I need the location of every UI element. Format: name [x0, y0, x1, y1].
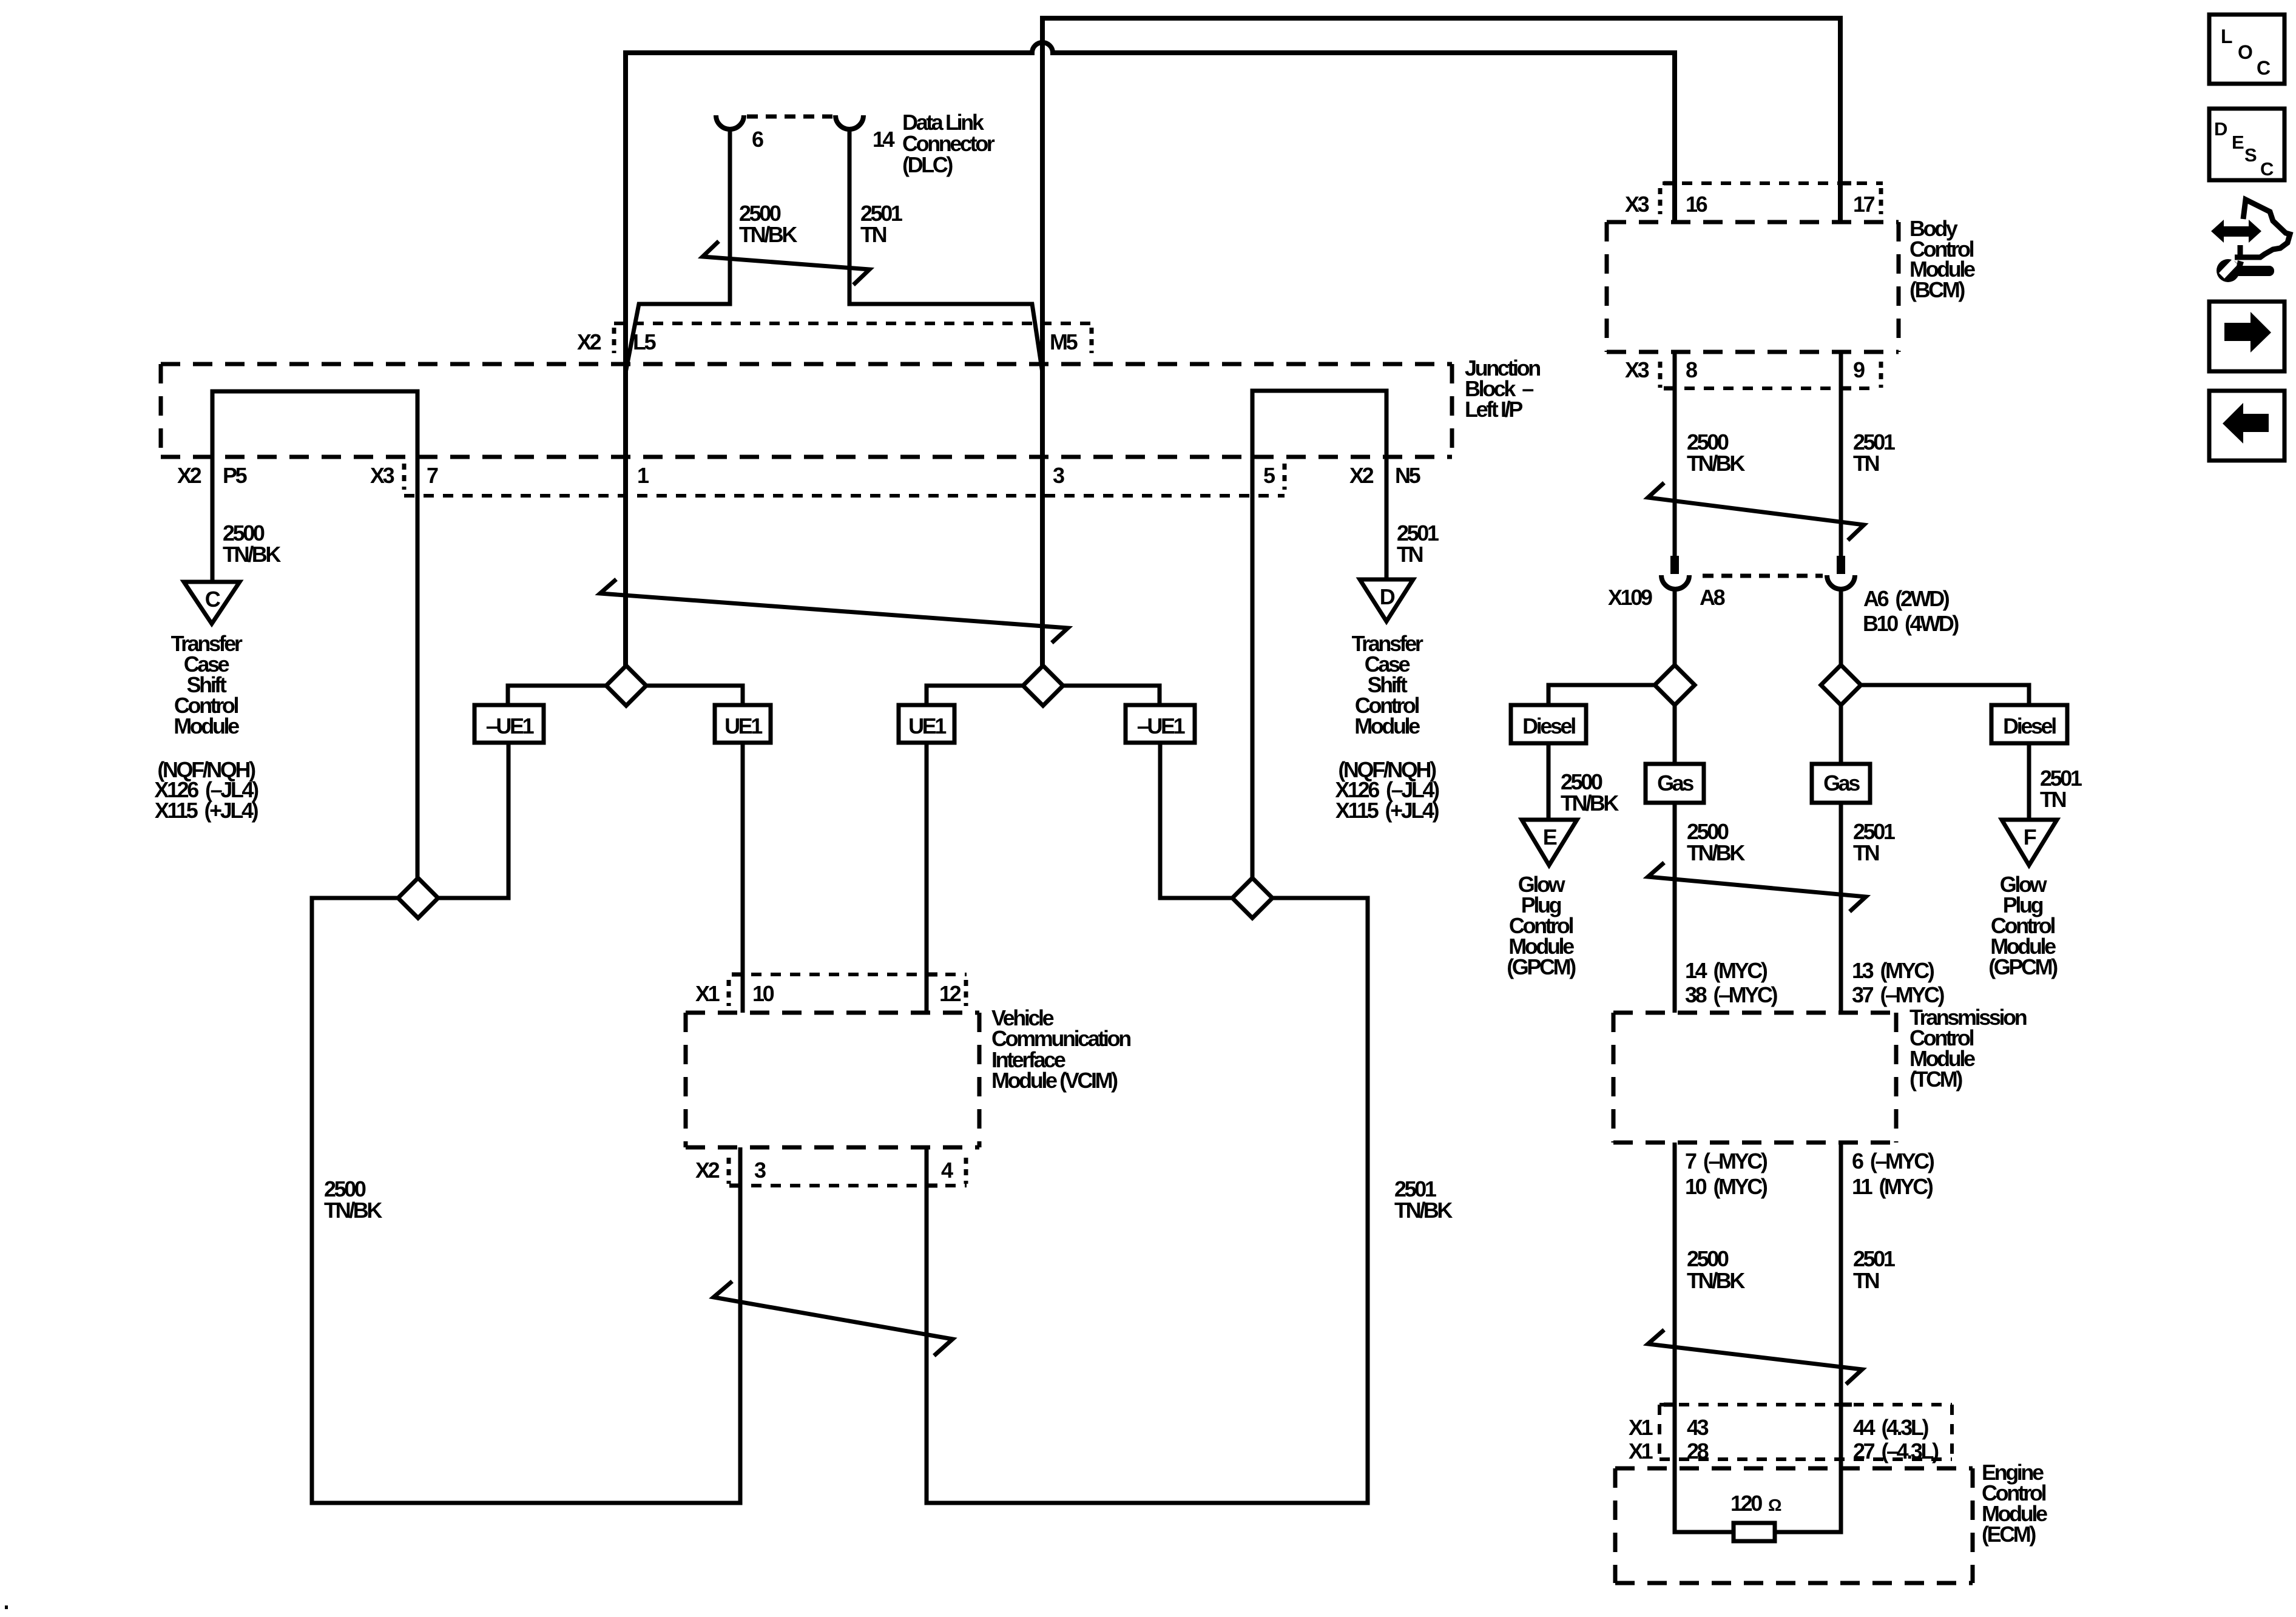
option box Gas (left): [1646, 764, 1704, 803]
svg-text:UE1: UE1: [908, 714, 947, 738]
svg-text:TN: TN: [1853, 840, 1879, 865]
tick X1 row left: [727, 980, 731, 1006]
junction block bottom pin row dotted: [404, 494, 1285, 498]
svg-text:(GPCM): (GPCM): [1507, 954, 1576, 979]
tick 5: [1283, 464, 1287, 490]
svg-text:Module: Module: [1354, 714, 1420, 738]
svg-text:Left I/P: Left I/P: [1465, 397, 1522, 422]
pin 3 terminal tick: [729, 1184, 740, 1188]
option box UE1 (2): [715, 705, 771, 743]
connector F triangle: [2002, 820, 2057, 865]
svg-text:X2: X2: [695, 1158, 720, 1183]
pin 10 terminal tick: [732, 973, 743, 977]
svg-text:–UE1: –UE1: [486, 714, 535, 738]
svg-text:3: 3: [754, 1158, 766, 1183]
svg-text:–UE1: –UE1: [1137, 714, 1186, 738]
svg-text:TN/BK: TN/BK: [1687, 840, 1745, 865]
outline shape: [2235, 200, 2290, 257]
VCIM X1 pin row dotted: [732, 973, 967, 976]
wire below X109 left: [1673, 589, 1677, 665]
svg-text:TN: TN: [1853, 451, 1879, 476]
wire P5 loop to 7: [212, 391, 417, 878]
svg-text:S: S: [2244, 144, 2257, 166]
svg-text:TN/BK: TN/BK: [223, 542, 281, 567]
svg-text:X3: X3: [1625, 192, 1649, 217]
svg-text:10 (MYC): 10 (MYC): [1685, 1174, 1768, 1199]
svg-text:2501: 2501: [1853, 1246, 1896, 1271]
tick X2 row right: [964, 1158, 968, 1184]
svg-text:38 (–MYC): 38 (–MYC): [1685, 982, 1777, 1007]
svg-text:7: 7: [427, 463, 438, 488]
wire Diesel right to triangle F: [2027, 743, 2031, 820]
svg-text:TN: TN: [1397, 542, 1423, 567]
icon LOC box: [2209, 15, 2284, 84]
wire UE1 (3) to VCIM pin 12: [925, 743, 929, 1013]
BCM X3 top pin row dotted: [1663, 181, 1883, 185]
svg-text:14: 14: [873, 127, 895, 152]
tick X3/7: [402, 464, 407, 490]
wire TCM pin 7 down: [1675, 1143, 1734, 1532]
wire 2500 from BCM pin 8: [1673, 352, 1677, 556]
wire from -UE1 (1) down to left loop: [438, 743, 508, 898]
page dot: [5, 1605, 8, 1609]
tick X3 top right: [1879, 188, 1883, 214]
svg-text:12: 12: [939, 981, 961, 1006]
svg-text:L5: L5: [633, 329, 657, 354]
svg-text:44 (4.3L): 44 (4.3L): [1853, 1415, 1928, 1440]
svg-text:E: E: [2232, 132, 2244, 153]
svg-text:X115 (+JL4): X115 (+JL4): [1335, 798, 1439, 823]
BCM dashed outline: [1607, 222, 1899, 352]
svg-text:X1: X1: [1629, 1415, 1653, 1440]
svg-text:17: 17: [1853, 192, 1875, 217]
svg-text:Module (VCIM): Module (VCIM): [991, 1068, 1118, 1093]
svg-text:B10 (4WD): B10 (4WD): [1863, 611, 1959, 636]
svg-text:14 (MYC): 14 (MYC): [1685, 958, 1768, 983]
wire right loop down around to VCIM pin 4: [927, 898, 1368, 1503]
junction block X2 connector row (L5/M5): [614, 322, 1092, 325]
svg-text:X1: X1: [1629, 1439, 1653, 1463]
wire break symbol (below DLC): [703, 243, 869, 283]
svg-text:X1: X1: [695, 981, 720, 1006]
svg-text:F: F: [2024, 825, 2036, 849]
connector DLC pin 14 terminal: [836, 115, 863, 129]
X109 dashed link: [1703, 574, 1823, 578]
option box -UE1 (1): [474, 705, 544, 743]
svg-text:X2: X2: [177, 463, 201, 488]
connector X109 male terminal left: [1670, 556, 1679, 574]
splice diamond left (diesel/gas): [1548, 685, 1655, 705]
BCM X3 bottom pin row dotted: [1665, 387, 1873, 390]
svg-text:Gas: Gas: [1823, 771, 1860, 795]
svg-text:TN/BK: TN/BK: [1687, 451, 1745, 476]
pin 12 terminal tick: [927, 973, 937, 977]
svg-text:TN: TN: [2040, 787, 2066, 812]
svg-text:X115 (+JL4): X115 (+JL4): [155, 798, 258, 823]
svg-text:(ECM): (ECM): [1982, 1522, 2036, 1547]
BCM pin 17 terminal tick: [1840, 181, 1851, 186]
wire break symbol (VCIM lower wires): [714, 1283, 953, 1354]
svg-text:Module: Module: [174, 714, 239, 738]
svg-text:9: 9: [1853, 357, 1865, 382]
svg-text:43: 43: [1687, 1415, 1709, 1440]
icon DESC box: [2209, 109, 2284, 180]
option box Diesel (right): [1991, 705, 2067, 743]
BCM pin 16 terminal tick: [1664, 181, 1675, 186]
DLC connector dashed link: [747, 115, 832, 119]
splice diamond on wire 3: [927, 686, 1023, 705]
icon forward arrow box: [2209, 302, 2284, 371]
wire break symbol (above BCM): [1648, 484, 1864, 539]
wire Diesel left to triangle E: [1547, 743, 1551, 820]
wire 2501 from BCM pin 9: [1839, 352, 1843, 556]
svg-text:TN/BK: TN/BK: [1561, 791, 1619, 815]
svg-text:(DLC): (DLC): [902, 152, 953, 177]
svg-text:TN/BK: TN/BK: [1394, 1198, 1453, 1223]
svg-text:M5: M5: [1050, 329, 1078, 354]
ECM X1 pin row dotted box: [1660, 1405, 1952, 1459]
svg-text:(GPCM): (GPCM): [1988, 954, 2058, 979]
svg-text:(TCM): (TCM): [1909, 1067, 1962, 1092]
svg-text:X2: X2: [1349, 463, 1374, 488]
resistor R 120 ohm: [1734, 1523, 1775, 1541]
svg-text:28: 28: [1687, 1439, 1709, 1463]
svg-text:TN/BK: TN/BK: [324, 1198, 382, 1223]
svg-text:13 (MYC): 13 (MYC): [1852, 958, 1934, 983]
tick M5: [1090, 328, 1094, 353]
svg-text:2500: 2500: [1687, 1246, 1729, 1271]
svg-text:UE1: UE1: [724, 714, 763, 738]
svg-text:D: D: [1380, 584, 1395, 609]
svg-text:O: O: [2238, 41, 2253, 63]
VCIM X2 pin row dotted: [732, 1184, 967, 1187]
wire from DLC pin 6: [626, 128, 730, 373]
option box -UE1 (4): [1126, 705, 1195, 743]
svg-text:11 (MYC): 11 (MYC): [1852, 1174, 1933, 1199]
wire N5 loop to 5: [1252, 391, 1386, 878]
svg-text:3: 3: [1053, 463, 1064, 488]
svg-text:TN/BK: TN/BK: [1687, 1268, 1745, 1293]
svg-text:A8: A8: [1700, 585, 1725, 610]
pin 43 terminal tick: [1664, 1403, 1675, 1407]
svg-text:27 (–4.3L): 27 (–4.3L): [1853, 1439, 1939, 1463]
wire from DLC pin 14: [849, 128, 1042, 373]
svg-text:Diesel: Diesel: [1522, 714, 1575, 738]
svg-text:120: 120: [1730, 1491, 1762, 1516]
wire Gas right to TCM: [1839, 803, 1843, 1013]
tick X3 bottom right: [1879, 362, 1883, 388]
ECM dashed outline: [1615, 1468, 1973, 1583]
connector D triangle: [1360, 579, 1413, 621]
TCM dashed outline: [1613, 1013, 1896, 1143]
connector X109 female terminal right: [1827, 575, 1855, 589]
svg-text:C: C: [2257, 57, 2271, 79]
svg-text:L: L: [2221, 25, 2233, 47]
svg-text:D: D: [2214, 118, 2227, 140]
wire 16 into BCM: [1672, 183, 1677, 222]
svg-text:16: 16: [1686, 192, 1707, 217]
svg-text:E: E: [1543, 825, 1557, 849]
tick X3 top left: [1658, 188, 1663, 214]
svg-text:TN: TN: [1853, 1268, 1879, 1293]
connector E triangle: [1522, 820, 1577, 865]
splice diamond left loop: [398, 878, 438, 918]
svg-text:C: C: [2260, 158, 2274, 180]
tick X3 bottom left: [1658, 362, 1663, 388]
svg-text:X3: X3: [1625, 357, 1649, 382]
wire Gas left to TCM: [1673, 803, 1677, 1013]
wire UE1 (2) to VCIM pin 10: [741, 743, 745, 1013]
svg-text:N5: N5: [1395, 463, 1421, 488]
wire break symbol (above TCM): [1648, 864, 1866, 910]
splice diamond right loop: [1232, 878, 1272, 918]
connector C triangle: [184, 582, 240, 624]
icon back arrow box: [2209, 391, 2284, 461]
svg-text:7 (–MYC): 7 (–MYC): [1685, 1149, 1768, 1173]
wire break symbol (above ECM): [1648, 1331, 1862, 1383]
connector X109 male terminal right: [1837, 556, 1845, 574]
svg-text:X109: X109: [1608, 585, 1652, 610]
wire left loop down around to VCIM pin 3: [312, 898, 740, 1503]
svg-text:Diesel: Diesel: [2003, 714, 2056, 738]
svg-text:10: 10: [752, 981, 774, 1006]
svg-text:37 (–MYC): 37 (–MYC): [1852, 982, 1944, 1007]
tick X1 row right: [964, 980, 968, 1006]
pin 44 terminal tick: [1841, 1403, 1852, 1407]
svg-text:8: 8: [1686, 357, 1697, 382]
wrench: [2217, 259, 2240, 282]
wire from -UE1 (4) down to right loop: [1160, 743, 1272, 898]
svg-text:A6 (2WD): A6 (2WD): [1863, 586, 1950, 611]
VCIM dashed outline: [686, 1013, 979, 1147]
wire 2501 TN top horizontal with corners: [1042, 18, 1840, 666]
wire 2500 TN/BK top horizontal with hop over 2501 vertical: [626, 42, 1675, 666]
icon wrench/arrow (repair instructions): [2211, 200, 2290, 282]
pin 9 terminal tick: [1840, 387, 1851, 391]
splice diamond on wire 1: [508, 686, 606, 705]
tick X2 row left: [727, 1158, 731, 1184]
svg-text:6 (–MYC): 6 (–MYC): [1852, 1149, 1934, 1173]
svg-text:TN: TN: [860, 222, 886, 247]
connector DLC pin 6 terminal: [716, 115, 744, 129]
option box UE1 (3): [899, 705, 954, 743]
svg-text:P5: P5: [223, 463, 248, 488]
double arrow: [2211, 220, 2261, 243]
svg-text:6: 6: [752, 127, 763, 152]
splice diamond right (diesel/gas): [1861, 685, 2029, 705]
option box Gas (right): [1812, 764, 1870, 803]
wire TCM pin 6 down: [1775, 1143, 1841, 1532]
option box Diesel (left): [1511, 705, 1586, 743]
svg-text:X2: X2: [577, 329, 601, 354]
wire break symbol (wires 1 and 3): [600, 581, 1068, 641]
svg-text:Ω: Ω: [1768, 1496, 1781, 1514]
pin 8 terminal tick: [1664, 387, 1675, 391]
svg-text:Gas: Gas: [1657, 771, 1693, 795]
svg-text:(BCM): (BCM): [1909, 277, 1965, 302]
wire 17 into BCM: [1838, 183, 1843, 222]
junction block J1 dashed outline: [161, 364, 1452, 457]
wire below X109 right: [1839, 589, 1843, 665]
svg-text:TN/BK: TN/BK: [739, 222, 797, 247]
pin 4 terminal tick: [927, 1184, 937, 1188]
connector X109 female terminal left: [1661, 575, 1689, 589]
svg-text:X3: X3: [370, 463, 394, 488]
tick X2/L5: [612, 328, 616, 353]
svg-text:C: C: [205, 587, 221, 612]
